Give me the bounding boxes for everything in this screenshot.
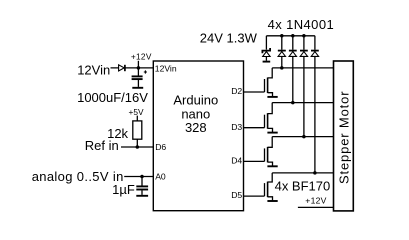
svg-text:A0: A0 (155, 171, 166, 181)
svg-text:24V 1.3W: 24V 1.3W (200, 30, 258, 45)
svg-text:4x BF170: 4x BF170 (275, 178, 331, 193)
svg-text:12Vin: 12Vin (155, 64, 177, 74)
svg-text:+12V: +12V (131, 52, 152, 62)
svg-text:+12V: +12V (305, 196, 326, 206)
svg-text:12Vin: 12Vin (77, 63, 110, 78)
svg-text:Stepper Motor: Stepper Motor (337, 91, 352, 184)
svg-text:+5V: +5V (129, 107, 144, 117)
svg-text:D3: D3 (231, 122, 242, 132)
svg-text:328: 328 (185, 120, 207, 135)
svg-text:1µF: 1µF (112, 182, 135, 197)
svg-text:Ref in: Ref in (85, 138, 119, 153)
svg-text:D5: D5 (231, 190, 242, 200)
svg-text:1000uF/16V: 1000uF/16V (77, 90, 148, 105)
svg-text:4x 1N4001: 4x 1N4001 (268, 17, 334, 32)
svg-text:analog 0..5V in: analog 0..5V in (32, 169, 124, 184)
svg-text:D6: D6 (155, 142, 166, 152)
svg-text:D2: D2 (231, 86, 242, 96)
svg-text:D4: D4 (231, 156, 242, 166)
